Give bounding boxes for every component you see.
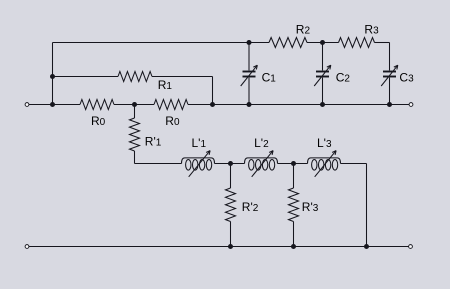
svg-text:R3: R3: [364, 22, 379, 36]
svg-text:C2: C2: [336, 70, 351, 84]
svg-text:L'1: L'1: [192, 136, 207, 150]
svg-text:R'2: R'2: [242, 200, 259, 214]
svg-text:R'1: R'1: [145, 134, 162, 148]
svg-text:R0: R0: [165, 114, 180, 128]
svg-text:L'3: L'3: [317, 136, 332, 150]
svg-text:R0: R0: [91, 114, 106, 128]
svg-text:C3: C3: [399, 70, 414, 84]
svg-text:C1: C1: [262, 70, 277, 84]
svg-text:L'2: L'2: [254, 136, 269, 150]
svg-text:R'3: R'3: [302, 200, 319, 214]
svg-text:R2: R2: [296, 22, 311, 36]
svg-text:R1: R1: [158, 78, 173, 92]
